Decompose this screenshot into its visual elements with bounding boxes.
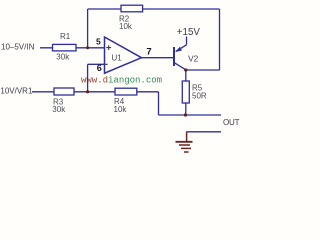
- resistor R5: [182, 81, 189, 103]
- wire feedback left vertical to pin5 node: [87, 9, 89, 48]
- resistor R1: [53, 44, 77, 51]
- transistor V2 emitter arrow into base: [175, 47, 182, 52]
- wire divider down vertical: [158, 92, 160, 115]
- node R5 bottom output junction: [184, 113, 187, 116]
- svg-text:30k: 30k: [56, 52, 70, 61]
- resistor R3: [54, 88, 74, 95]
- svg-text:6: 6: [97, 63, 102, 73]
- wire pin6 vertical to divider node: [87, 64, 89, 92]
- svg-text:U1: U1: [112, 54, 123, 63]
- resistor R2: [121, 5, 143, 12]
- svg-text:R1: R1: [60, 32, 71, 41]
- node divider junction: [86, 90, 89, 93]
- svg-text:10k: 10k: [119, 22, 133, 31]
- svg-text:5: 5: [96, 36, 101, 46]
- op-amp minus input sign: [103, 63, 107, 65]
- op-amp U1: [105, 37, 142, 73]
- wire R5 bottom lead: [185, 103, 187, 115]
- node collector junction: [184, 68, 187, 71]
- svg-text:30k: 30k: [52, 105, 66, 114]
- svg-text:+15V: +15V: [177, 27, 201, 38]
- svg-text:10k: 10k: [114, 105, 128, 114]
- op-amp plus input sign: [106, 45, 111, 50]
- transistor V2 collector diagonal: [175, 63, 186, 70]
- resistor R4: [115, 88, 137, 95]
- svg-text:10–5V/IN: 10–5V/IN: [1, 42, 35, 51]
- wire ground return to OUT: [186, 131, 221, 133]
- wire feedback right vertical: [219, 9, 221, 70]
- wire R5 top lead: [185, 70, 187, 82]
- node pin5 summing junction: [86, 46, 89, 49]
- transistor Q V2 base bar: [173, 47, 175, 66]
- svg-text:50R: 50R: [192, 92, 207, 101]
- wire op-amp output pin7 to base: [142, 57, 174, 59]
- svg-text:7: 7: [146, 46, 151, 57]
- svg-text:10V/VR1: 10V/VR1: [0, 86, 33, 95]
- ground: [176, 132, 193, 152]
- wire +15V supply stub: [186, 37, 188, 45]
- wire feedback top horizontal: [88, 8, 220, 10]
- wire output node horizontal to OUT: [159, 114, 222, 116]
- svg-text:V2: V2: [188, 53, 199, 63]
- transistor V2 emitter diagonal: [176, 45, 187, 52]
- wire VR1 divider horizontal: [32, 91, 159, 93]
- svg-text:OUT: OUT: [223, 118, 240, 127]
- wire input IN to pin5: [40, 47, 106, 49]
- wire pin6 horizontal: [88, 63, 106, 65]
- wire collector node horizontal: [186, 69, 220, 71]
- svg-text:www.diangon.com: www.diangon.com: [81, 75, 162, 85]
